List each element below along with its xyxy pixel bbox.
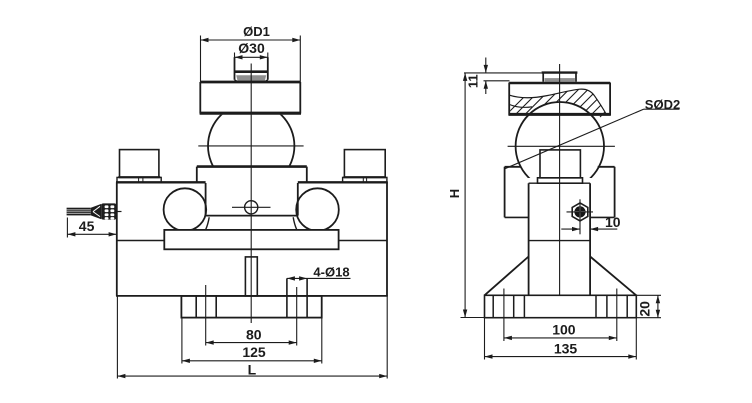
top plate left view bbox=[200, 82, 301, 114]
cable bbox=[67, 208, 91, 216]
svg-text:11: 11 bbox=[466, 74, 481, 88]
dimension 100 bbox=[504, 322, 617, 341]
center marker circle bbox=[232, 201, 271, 214]
base right view bbox=[485, 289, 637, 342]
bearing plate left view bbox=[164, 230, 338, 249]
svg-text:10: 10 bbox=[605, 214, 621, 230]
dimension 11 bbox=[466, 58, 510, 95]
stem under bearing plate bbox=[245, 257, 257, 296]
cable stub bbox=[116, 211, 121, 213]
loading ball left view bbox=[208, 103, 294, 189]
center axis right view bbox=[559, 64, 561, 295]
body joint line right segment bbox=[339, 240, 387, 242]
dimension OD1 bbox=[201, 24, 301, 82]
main body left view bbox=[116, 182, 388, 296]
svg-text:100: 100 bbox=[552, 322, 576, 338]
label SOD2 with leader bbox=[505, 97, 681, 169]
dimension 80 bbox=[206, 327, 297, 345]
roller right bbox=[296, 188, 339, 231]
dimension H bbox=[447, 73, 542, 318]
svg-text:135: 135 bbox=[554, 341, 578, 357]
trapezoid skirt right view bbox=[485, 257, 637, 296]
ball right view bbox=[516, 102, 604, 190]
svg-text:Ø30: Ø30 bbox=[238, 40, 265, 56]
dimension 45 bbox=[67, 218, 116, 238]
top cap right view bbox=[542, 73, 578, 82]
lower mounting plate left view bbox=[181, 278, 321, 345]
svg-text:125: 125 bbox=[242, 344, 266, 360]
svg-text:45: 45 bbox=[79, 218, 95, 234]
cable taper bbox=[91, 204, 102, 219]
wide block right view bbox=[505, 167, 615, 218]
skirt fillet right bbox=[293, 217, 297, 230]
center block left view bbox=[197, 167, 307, 216]
pedestal right view bbox=[540, 150, 580, 178]
ball equator right view bbox=[508, 145, 615, 147]
dimension 125 bbox=[182, 319, 322, 364]
top cap left view bbox=[234, 57, 268, 81]
pedestal flange bbox=[538, 178, 583, 183]
bump left bbox=[118, 150, 160, 178]
dimension 20 bbox=[636, 295, 661, 317]
body joint line left segment bbox=[117, 240, 165, 242]
ball equator centerline bbox=[198, 145, 303, 147]
hex bolt bbox=[567, 199, 594, 234]
svg-text:4-Ø18: 4-Ø18 bbox=[313, 265, 349, 280]
svg-text:ØD1: ØD1 bbox=[243, 24, 270, 39]
bump right bbox=[343, 150, 386, 178]
svg-text:20: 20 bbox=[636, 301, 652, 317]
svg-text:H: H bbox=[447, 189, 462, 198]
center axis left view bbox=[250, 64, 252, 324]
svg-text:80: 80 bbox=[246, 327, 262, 343]
dimension 135 bbox=[485, 319, 637, 360]
svg-text:L: L bbox=[248, 362, 257, 378]
roller left bbox=[164, 188, 339, 231]
bump strip left bbox=[117, 177, 161, 182]
bump strip right bbox=[343, 177, 387, 182]
upper bearing plate right view (sectioned) bbox=[506, 89, 624, 117]
cable gland nut bbox=[101, 203, 116, 219]
skirt fillet left bbox=[206, 217, 210, 230]
plate outline right view bbox=[509, 83, 611, 116]
dimension L bbox=[117, 296, 387, 379]
dimension O30 bbox=[235, 40, 268, 60]
dimension 4-O18 bbox=[287, 265, 351, 281]
dimension 10 bbox=[561, 214, 620, 231]
column right view bbox=[529, 183, 591, 295]
